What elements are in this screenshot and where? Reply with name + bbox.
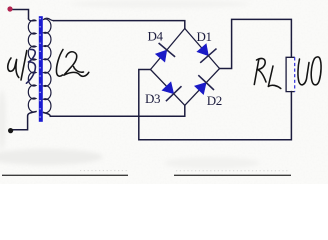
svg-text:D2: D2 <box>207 93 222 108</box>
resistor RL box <box>286 57 295 91</box>
wire: AC1 secondary top to bridge top vertex <box>54 21 185 29</box>
label RL (handwritten, load) <box>254 58 280 88</box>
wire: primary top lead curve <box>29 19 37 21</box>
terminal dot top-left (input +) <box>7 6 12 11</box>
diode D2 <box>195 75 214 94</box>
wire: secondary bottom lead <box>44 113 51 117</box>
artifact line bottom-right <box>174 174 291 176</box>
diode D3 <box>162 82 181 101</box>
wire: DC- left vertex to bottom rail to load bottom <box>139 70 292 140</box>
transformer T1 secondary winding <box>44 19 51 113</box>
wire: bridge edge bottom-left <box>151 70 185 106</box>
svg-text:D4: D4 <box>148 28 164 43</box>
wire: AC2 secondary bottom to bridge bottom vertex <box>50 105 184 116</box>
svg-text:D1: D1 <box>197 29 212 44</box>
diamond bridge edges <box>151 29 220 106</box>
wire: bridge edge top-right <box>185 29 220 69</box>
transformer T1 primary winding <box>28 20 36 112</box>
wire: DC+ right vertex to top rail to load top <box>220 19 292 68</box>
label U2 (handwritten, secondary voltage) <box>56 50 88 77</box>
label U1 (handwritten, primary voltage) <box>8 49 36 83</box>
wire: primary bottom lead <box>13 112 37 130</box>
wire: top-left terminal to primary top <box>12 10 29 19</box>
artifact dotted traces <box>80 170 128 172</box>
diode D1 <box>197 44 217 63</box>
diode D4 <box>156 43 176 62</box>
label U0 (handwritten, output voltage) <box>298 57 321 85</box>
terminal dot bottom-left (input -) <box>8 128 13 133</box>
wire: bridge edge top-left <box>151 29 185 70</box>
transformer T1 core <box>39 16 43 122</box>
wire: secondary top lead <box>44 18 54 20</box>
wire: bridge edge bottom-right <box>185 69 220 106</box>
artifact line bottom-left <box>2 174 128 176</box>
svg-text:D3: D3 <box>145 91 160 106</box>
